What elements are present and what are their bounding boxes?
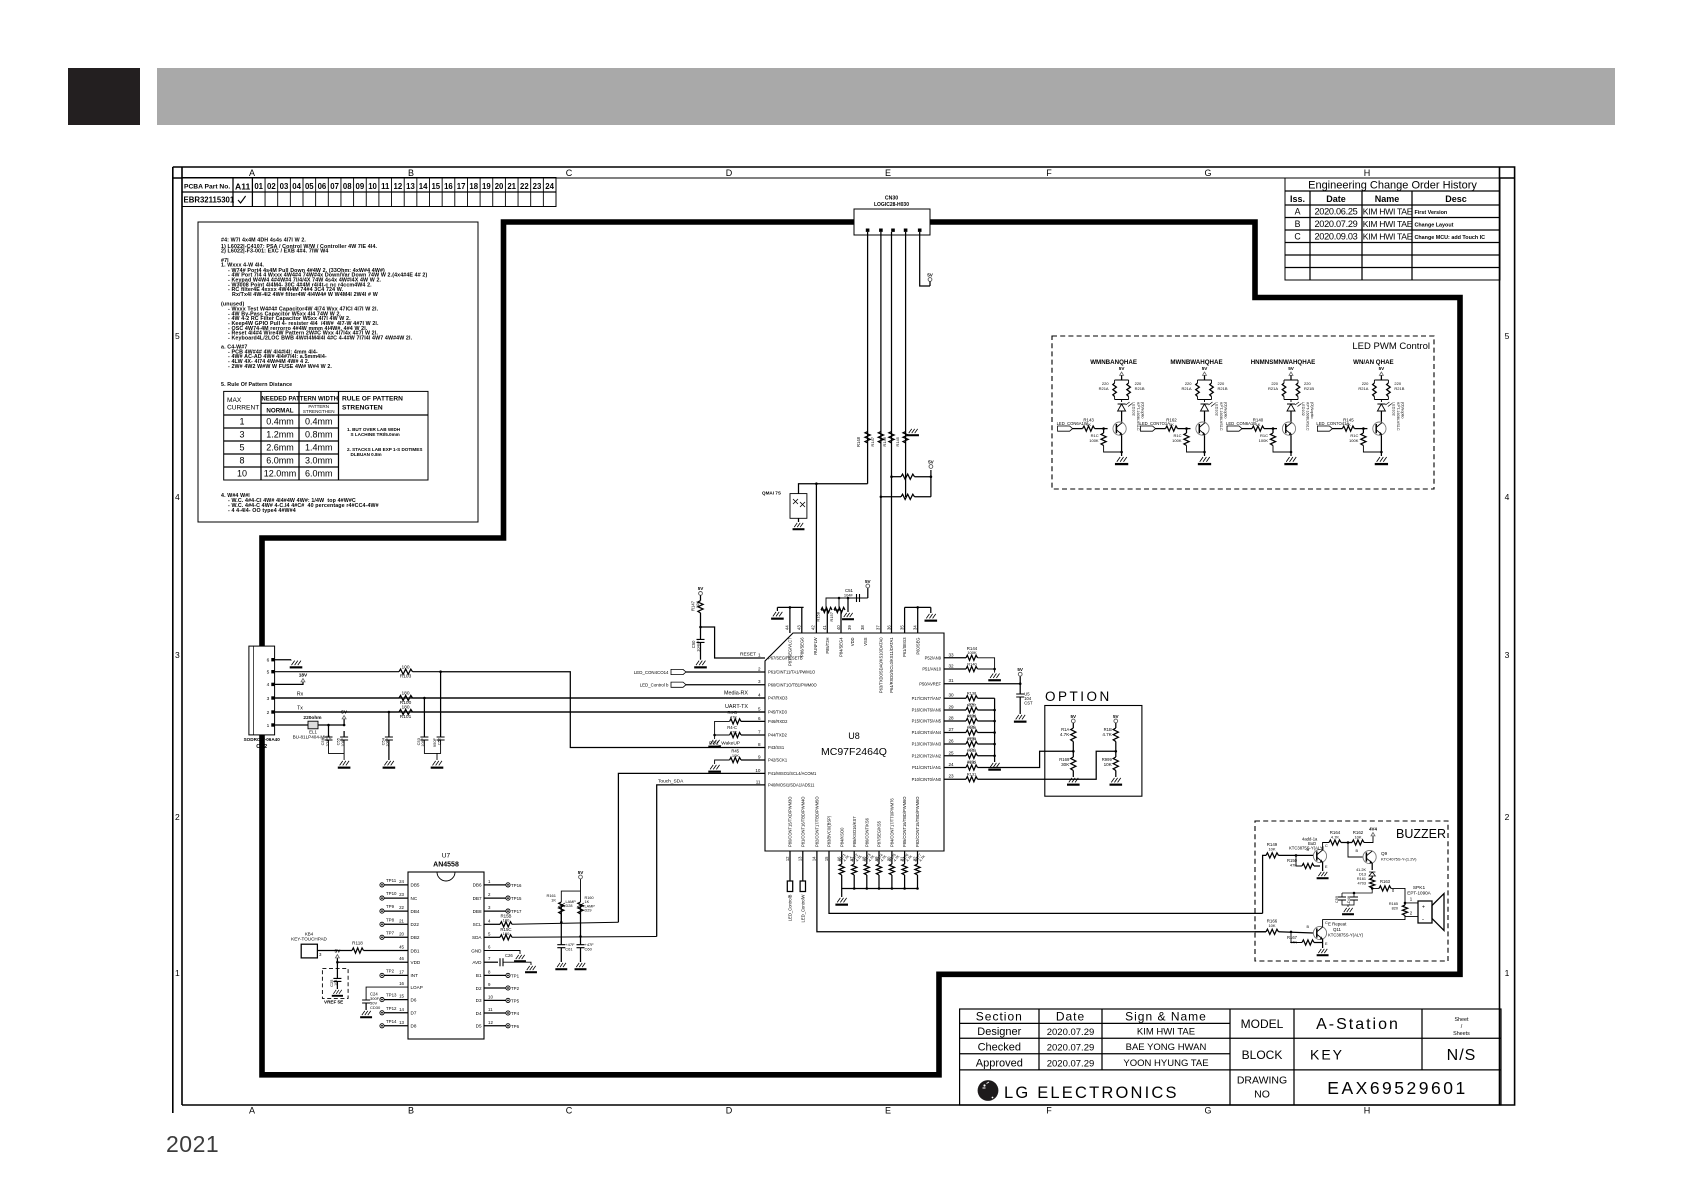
- svg-text:R21B: R21B: [1135, 386, 1145, 391]
- emitter wire to ground R140: [1290, 435, 1292, 456]
- wire SCL to MCU: [512, 922, 618, 924]
- svg-text:P84/SEG4: P84/SEG4: [839, 637, 844, 657]
- wire AVREF to bypass: [944, 683, 1020, 685]
- svg-text:4: 4: [488, 918, 491, 923]
- svg-text:3: 3: [239, 430, 244, 440]
- bias resistors pair R143: [1115, 378, 1129, 402]
- svg-text:QMAI 7S: QMAI 7S: [762, 491, 781, 496]
- wire to power 4V4: [1364, 836, 1373, 843]
- svg-text:SODROW-06A40: SODROW-06A40: [244, 737, 281, 742]
- svg-text:R147: R147: [870, 436, 875, 446]
- svg-text:P86/SEG6: P86/SEG6: [799, 637, 804, 657]
- connector CN2 SODROW-06A40: [249, 646, 275, 735]
- wire CN3 pin4 down: [905, 232, 907, 497]
- svg-text:41.2K: 41.2K: [1356, 868, 1366, 872]
- LG logo: [978, 1080, 999, 1101]
- svg-text:4: 4: [758, 693, 761, 698]
- resistor R169: [1071, 757, 1076, 771]
- wire R166 to Q11 base: [1279, 932, 1314, 933]
- svg-text:KEY: KEY: [1310, 1047, 1344, 1063]
- wire U7 LOAP to C24: [366, 987, 408, 1000]
- svg-text:4.7K: 4.7K: [1102, 732, 1112, 737]
- svg-text:MWNBWAHQHAE: MWNBWAHQHAE: [1170, 359, 1222, 366]
- svg-text:P13/CINT3/AN3: P13/CINT3/AN3: [912, 742, 942, 747]
- svg-text:09: 09: [356, 182, 365, 191]
- ground R145: [1375, 457, 1388, 465]
- svg-text:DLBUAN 0.8m: DLBUAN 0.8m: [351, 452, 382, 457]
- svg-text:5V: 5V: [698, 586, 705, 591]
- svg-text:R21A: R21A: [1358, 386, 1368, 391]
- svg-text:2: 2: [488, 892, 491, 897]
- ground C26: [525, 966, 537, 973]
- LED indicator R143: [1118, 404, 1126, 411]
- svg-text:B: B: [1355, 849, 1358, 853]
- svg-text:WN/AN QHAE: WN/AN QHAE: [1353, 359, 1394, 366]
- svg-text:10: 10: [368, 182, 377, 191]
- svg-text:P42/SCK1: P42/SCK1: [768, 758, 788, 763]
- capacitor C51: [857, 594, 860, 602]
- svg-text:CD30: CD30: [370, 1005, 381, 1010]
- svg-text:5: 5: [239, 443, 244, 453]
- capacitor C60 on SDA: [580, 937, 582, 945]
- svg-text:R157: R157: [829, 611, 834, 621]
- LED driver circuit R145: [1353, 359, 1394, 366]
- U7 AN4558 body: [408, 872, 484, 1039]
- svg-text:100K: 100K: [1349, 438, 1359, 443]
- ground below C24: [365, 1003, 367, 1010]
- svg-text:10K: 10K: [1268, 923, 1275, 928]
- svg-text:- Keyboard4L/2LOC BWB 4W#l4M4l: - Keyboard4L/2LOC BWB 4W#l4M4l4l 4#C 4-4…: [228, 335, 413, 341]
- svg-text:5V: 5V: [865, 579, 872, 584]
- capacitor C56: [328, 725, 330, 737]
- svg-text:P50/AVREF: P50/AVREF: [919, 681, 941, 686]
- svg-text:OPTION: OPTION: [1045, 689, 1112, 704]
- svg-text:BLOCK: BLOCK: [1242, 1048, 1283, 1062]
- svg-text:C59: C59: [1335, 896, 1339, 903]
- caps C59 LD48 cluster to ground: [1342, 888, 1372, 897]
- wire R164 junction to Q9 base: [1348, 843, 1363, 858]
- ground below remote box: [798, 518, 800, 522]
- ground below ladder bus: [988, 763, 1001, 771]
- ground below R45: [708, 765, 721, 773]
- svg-text:180: 180: [401, 705, 409, 711]
- svg-text:Sign & Name: Sign & Name: [1125, 1010, 1207, 1024]
- svg-text:46: 46: [399, 956, 404, 961]
- svg-text:E: E: [885, 1106, 891, 1116]
- svg-text:R118: R118: [352, 941, 363, 946]
- wire Q11 emitter ground: [1322, 939, 1324, 948]
- svg-text:KPT-1608LVS1C: KPT-1608LVS1C: [1219, 402, 1223, 431]
- svg-text:Section: Section: [976, 1010, 1023, 1024]
- svg-text:STRENGTEN: STRENGTEN: [342, 405, 383, 412]
- svg-text:0.4mm: 0.4mm: [305, 417, 333, 427]
- svg-text:1.2mm: 1.2mm: [266, 430, 294, 440]
- svg-text:4703: 4703: [1358, 882, 1366, 886]
- svg-text:MC97F2464Q: MC97F2464Q: [821, 746, 887, 758]
- svg-text:24: 24: [545, 182, 554, 191]
- svg-text:Desc: Desc: [1445, 194, 1467, 204]
- wire divider mid: [1115, 742, 1117, 758]
- svg-text:21: 21: [507, 182, 516, 191]
- svg-text:(O)Noptio: (O)Noptio: [1224, 402, 1228, 418]
- svg-text:3: 3: [488, 905, 491, 910]
- svg-text:4: 4: [267, 682, 270, 688]
- svg-text:SCL: SCL: [473, 922, 482, 927]
- resistor R132 on U8 pin24 AN1: [944, 767, 966, 769]
- svg-text:P40/MOSI1/SDA1/AD511: P40/MOSI1/SDA1/AD511: [768, 783, 815, 788]
- bias resistors pair R140: [1284, 378, 1298, 402]
- svg-text:Media-RX: Media-RX: [724, 691, 748, 697]
- power 5V R140: [1289, 372, 1293, 375]
- wire UART-TX from CN2 to U8 pin5: [275, 711, 765, 713]
- transistor Q R140: [1282, 422, 1295, 435]
- svg-text:8: 8: [239, 456, 244, 466]
- svg-text:HNMNSMNWAHQHAE: HNMNSMNWAHQHAE: [1251, 359, 1316, 366]
- I2C pullup R160 with diode D29: [580, 905, 582, 937]
- base resistor R162: [1156, 428, 1166, 430]
- svg-text:MODEL: MODEL: [1241, 1017, 1284, 1031]
- ground below resistor array: [841, 889, 843, 898]
- resistor R15C on U7 SDA: [484, 936, 500, 938]
- svg-text:5V: 5V: [1379, 366, 1386, 371]
- ground caps cluster: [1342, 908, 1354, 915]
- svg-text:1: 1: [488, 879, 491, 884]
- U7 left pins with test pads: [380, 878, 423, 1029]
- resistor R121 on U8 pin7: [741, 734, 765, 736]
- svg-text:31: 31: [949, 678, 955, 683]
- svg-text:23: 23: [399, 892, 404, 897]
- power 5V R145: [1379, 372, 1383, 375]
- resistor array R171-R177 below U8: [838, 851, 927, 889]
- wire CN2 pin2 Tx line: [275, 711, 399, 713]
- svg-text:01: 01: [254, 182, 263, 191]
- svg-text:1K: 1K: [551, 898, 556, 903]
- svg-text:LED_CON6A1B: LED_CON6A1B: [1226, 421, 1256, 426]
- svg-text:Engineering Change Order Histo: Engineering Change Order History: [1308, 180, 1477, 192]
- svg-text:C26: C26: [505, 953, 513, 958]
- wire caps to ground: [329, 740, 345, 760]
- svg-text:R131: R131: [967, 772, 977, 777]
- resistor R103 100: [399, 669, 413, 674]
- svg-text:3: 3: [758, 679, 761, 684]
- svg-text:8: 8: [758, 742, 761, 747]
- svg-text:NORMAL: NORMAL: [266, 407, 293, 414]
- svg-text:1K: 1K: [585, 900, 590, 904]
- svg-text:42: 42: [810, 625, 815, 630]
- svg-text:P82/CONT17/TBD/PWM5O: P82/CONT17/TBD/PWM5O: [815, 796, 820, 847]
- series resistors R145-R148 on CN3 lines: [865, 432, 870, 444]
- svg-text:KPT-1608LVS1C: KPT-1608LVS1C: [1306, 402, 1310, 431]
- svg-text:F: F: [1046, 1106, 1052, 1116]
- svg-text:47K: 47K: [1290, 940, 1297, 945]
- svg-text:5V: 5V: [334, 949, 341, 955]
- svg-text:+: +: [1422, 905, 1425, 911]
- power 5V divider at x=1115: [1114, 719, 1118, 723]
- LED driver circuit R143: [1090, 359, 1137, 366]
- resistor R45 10K on U8 pin9: [741, 759, 765, 761]
- svg-text:D: D: [726, 1106, 733, 1116]
- svg-text:100: 100: [401, 664, 409, 670]
- svg-text:D13: D13: [1359, 873, 1366, 877]
- net tag LED_CON4CO14 to U8 pin2: [671, 669, 686, 674]
- svg-text:2020.07.29: 2020.07.29: [1315, 219, 1358, 229]
- U8 left pin stubs and labels: [755, 653, 817, 788]
- svg-text:5: 5: [1505, 331, 1510, 341]
- svg-text:23: 23: [533, 182, 542, 191]
- svg-text:R21B: R21B: [1394, 386, 1404, 391]
- svg-text:Change Layout: Change Layout: [1415, 223, 1454, 229]
- U8 top pin stubs and labels: [785, 625, 921, 693]
- svg-text:U7: U7: [442, 853, 451, 860]
- svg-text:100K: 100K: [967, 650, 977, 655]
- svg-text:P83/BVC0/(BSP): P83/BVC0/(BSP): [827, 815, 832, 847]
- resistor R147 10K: [698, 601, 703, 613]
- svg-text:WMNBANQHAE: WMNBANQHAE: [1090, 359, 1137, 366]
- svg-text:5: 5: [267, 670, 270, 676]
- svg-text:1K: 1K: [1086, 422, 1091, 427]
- svg-text:1: 1: [1505, 968, 1510, 978]
- wire LED to transistor R162: [1204, 411, 1206, 422]
- svg-text:R148: R148: [856, 436, 861, 447]
- ground R140: [1284, 457, 1297, 465]
- wire DD1_WakeUP from CN2 18V line to U8 pin8: [441, 672, 765, 748]
- base resistor R143: [1073, 428, 1083, 430]
- svg-text:R21A: R21A: [1181, 386, 1191, 391]
- svg-text:4V4: 4V4: [1369, 827, 1377, 832]
- svg-text:TP14: TP14: [386, 1019, 397, 1024]
- ground Q11: [1317, 949, 1329, 956]
- wire R149 to T1 base: [1279, 854, 1314, 856]
- svg-text:30: 30: [949, 693, 955, 698]
- svg-text:3: 3: [175, 650, 180, 660]
- svg-text:LED_ControlW: LED_ControlW: [801, 894, 806, 922]
- svg-text:2: 2: [267, 710, 270, 716]
- wire T1 collector: [1323, 843, 1329, 851]
- ground below C60: [580, 948, 582, 962]
- I2C pullup resistor to 5V (upper): [892, 476, 902, 478]
- svg-text:R158: R158: [816, 611, 821, 621]
- svg-text:KIM HWI TAE: KIM HWI TAE: [1363, 219, 1413, 229]
- svg-text:KTC3875S-Y(ALY): KTC3875S-Y(ALY): [1289, 846, 1325, 851]
- power 5V AVREF: [1019, 676, 1021, 684]
- svg-text:DRAWING: DRAWING: [1237, 1075, 1287, 1087]
- wire R163 to speaker pin1: [1391, 888, 1418, 903]
- thick schematic boundary outline: [262, 222, 1460, 1075]
- remote sensor box: [790, 494, 807, 519]
- wire divider mid: [1072, 742, 1074, 758]
- svg-text:P61/CINT11/TA1/PWM1O: P61/CINT11/TA1/PWM1O: [768, 670, 815, 675]
- svg-text:LED102: LED102: [1391, 402, 1395, 416]
- svg-text:P10/CINT0/AN0: P10/CINT0/AN0: [912, 777, 942, 782]
- transistor T1 KTC3875S: [1313, 849, 1326, 862]
- svg-text:Designer: Designer: [977, 1026, 1021, 1038]
- year caption: [166, 1131, 219, 1158]
- svg-text:DB1: DB1: [411, 948, 420, 953]
- svg-text:P44/TXD2: P44/TXD2: [768, 733, 788, 738]
- svg-text:12: 12: [785, 856, 790, 861]
- svg-text:220ohm: 220ohm: [303, 715, 321, 721]
- svg-text:F: F: [1046, 168, 1052, 178]
- svg-text:YOON HYUNG TAE: YOON HYUNG TAE: [1123, 1058, 1208, 1069]
- svg-text:TP12: TP12: [386, 1006, 397, 1011]
- wire U8 pin15 to buzzer (upper): [829, 851, 1263, 913]
- svg-text:A: A: [1295, 207, 1301, 217]
- sheet outer border: [173, 167, 1515, 1113]
- resistor R165 820: [1404, 903, 1406, 905]
- wire divider to ground: [1115, 771, 1117, 778]
- wire C52/C53 to ground: [424, 740, 440, 760]
- base resistor R140: [1242, 428, 1252, 430]
- svg-text:C56: C56: [320, 737, 325, 745]
- notes box: [198, 222, 478, 522]
- svg-text:100K: 100K: [1259, 438, 1269, 443]
- svg-text:KEY-TOUCHPAD: KEY-TOUCHPAD: [291, 936, 327, 941]
- svg-text:32: 32: [949, 664, 955, 669]
- svg-text:9: 9: [758, 755, 761, 760]
- svg-text:R165: R165: [1389, 902, 1398, 906]
- svg-text:100: 100: [503, 931, 510, 936]
- svg-text:5V: 5V: [341, 710, 348, 716]
- svg-text:8: 8: [488, 969, 491, 974]
- resistor R164 4.7K: [1329, 840, 1341, 845]
- wire U8 pin11 to touch SDA: [657, 785, 765, 937]
- svg-text:P84/KSO0: P84/KSO0: [839, 827, 844, 847]
- svg-text:27: 27: [949, 727, 955, 732]
- svg-text:INT: INT: [411, 973, 419, 978]
- wire CN2 pin6 to ground: [275, 659, 291, 661]
- svg-text:C: C: [566, 168, 573, 178]
- svg-text:TP10: TP10: [386, 891, 397, 896]
- wire R45 to ground: [715, 760, 730, 764]
- pulldown resistor R150: [1296, 855, 1302, 866]
- svg-text:17: 17: [399, 969, 404, 974]
- wire T1 emitter to ground: [1322, 862, 1324, 871]
- svg-text:5: 5: [488, 931, 491, 936]
- svg-text:P85/CONT16/TBD/PWM6O: P85/CONT16/TBD/PWM6O: [902, 796, 907, 847]
- svg-text:B1: B1: [476, 973, 482, 978]
- svg-text:(O)Noptio: (O)Noptio: [1141, 402, 1145, 418]
- svg-text:47K: 47K: [730, 729, 737, 734]
- resistor R131 on U8 pin23 AN0: [944, 778, 966, 780]
- svg-text:12.0mm: 12.0mm: [264, 469, 297, 479]
- svg-text:24: 24: [949, 762, 955, 767]
- svg-text:RESET: RESET: [740, 652, 756, 658]
- svg-text:LED_CON4CO14: LED_CON4CO14: [634, 670, 669, 675]
- transistor Q R145: [1373, 422, 1386, 435]
- svg-text:41: 41: [822, 625, 827, 630]
- check mark under A11: [238, 196, 246, 203]
- svg-text:16: 16: [399, 981, 404, 986]
- resistor R143A on U8 pin32: [944, 668, 966, 670]
- power 5V divider at x=1073: [1071, 719, 1075, 723]
- svg-text:D8: D8: [411, 1024, 417, 1029]
- svg-text:15: 15: [824, 856, 829, 861]
- svg-text:MAX: MAX: [227, 397, 242, 404]
- svg-text:U8: U8: [848, 731, 860, 741]
- svg-text:1: 1: [175, 968, 180, 978]
- title block table: [960, 1009, 1501, 1105]
- svg-text:950F: 950F: [432, 737, 437, 747]
- svg-text:26: 26: [949, 739, 955, 744]
- svg-text:BAE YONG HWAN: BAE YONG HWAN: [1126, 1042, 1207, 1053]
- svg-text:P85/KSO16/KS7: P85/KSO16/KS7: [852, 816, 857, 847]
- svg-text:4.7K: 4.7K: [1331, 835, 1340, 840]
- power 5V U7 pullups: [579, 875, 583, 879]
- test pad LED_ControlW on U8 pin13: [802, 851, 804, 881]
- wire R164 to R160b: [1341, 842, 1352, 844]
- svg-text:LED_Control b: LED_Control b: [640, 683, 669, 688]
- wire Q9 emitter to diode cluster: [1371, 863, 1373, 870]
- svg-text:B: B: [408, 168, 414, 178]
- svg-text:TP15: TP15: [511, 896, 522, 901]
- svg-text:08: 08: [343, 182, 352, 191]
- svg-text:KPT-1608LVS1C: KPT-1608LVS1C: [1136, 402, 1140, 431]
- svg-text:10: 10: [488, 994, 493, 999]
- ground below C61: [560, 948, 562, 962]
- ground below R144 bus: [988, 674, 1001, 682]
- svg-text:R21B: R21B: [1304, 386, 1314, 391]
- svg-text:R133: R133: [967, 748, 977, 753]
- svg-text:104nF: 104nF: [695, 640, 700, 652]
- svg-text:104F: 104F: [844, 593, 854, 598]
- svg-text:10K: 10K: [1268, 847, 1275, 852]
- svg-text:R21B: R21B: [1218, 386, 1228, 391]
- svg-text:5V: 5V: [1288, 366, 1295, 371]
- svg-text:Checked: Checked: [978, 1042, 1021, 1054]
- ground on bus: [847, 598, 849, 612]
- svg-text:4: 4: [175, 492, 180, 502]
- LED driver circuit R140: [1251, 359, 1316, 366]
- svg-text:P11/CINT1/AN1: P11/CINT1/AN1: [912, 765, 942, 770]
- svg-text:34: 34: [913, 625, 918, 630]
- svg-text:H: H: [1364, 168, 1371, 178]
- svg-text:Sheets: Sheets: [1453, 1031, 1470, 1037]
- U8 right pin stubs and labels: [912, 652, 954, 782]
- wire CN3 pin1 down: [867, 232, 869, 484]
- svg-text:P15/CINT5/AN5: P15/CINT5/AN5: [912, 719, 942, 724]
- svg-text:D7: D7: [411, 1011, 417, 1016]
- power 5V on EL1 output: [343, 719, 345, 725]
- ground divider: [1110, 778, 1123, 786]
- svg-text:6: 6: [488, 945, 491, 950]
- ground below C50: [700, 642, 702, 659]
- resistor R120 on U8 pin6: [741, 720, 765, 722]
- svg-text:D29: D29: [585, 909, 592, 913]
- wire AN0 into OPTION divider2: [978, 751, 1116, 779]
- svg-text:15: 15: [399, 994, 404, 999]
- wire R118 to U7 DB1: [364, 950, 409, 952]
- svg-text:0.8mm: 0.8mm: [305, 430, 333, 440]
- svg-text:GND: GND: [471, 948, 482, 953]
- svg-text:R101: R101: [400, 714, 412, 720]
- svg-text:29: 29: [949, 705, 955, 710]
- svg-text:VDD: VDD: [411, 960, 421, 965]
- svg-text:39: 39: [847, 625, 852, 630]
- box KEY-TOUCHPAD: [301, 944, 317, 958]
- ground pins6-7 bus: [708, 740, 721, 748]
- svg-text:44: 44: [785, 625, 790, 630]
- svg-text:KIM HWI TAE: KIM HWI TAE: [1363, 232, 1413, 242]
- svg-text:180: 180: [401, 691, 409, 697]
- svg-text:DB4: DB4: [411, 909, 420, 914]
- wire resistor bus to 5V: [826, 598, 868, 610]
- svg-text:Date: Date: [1326, 194, 1346, 204]
- svg-text:TP17: TP17: [511, 909, 522, 914]
- svg-text:C55: C55: [336, 737, 341, 745]
- svg-text:RULE OF PATTERN: RULE OF PATTERN: [342, 396, 403, 403]
- transistor Q R143: [1113, 422, 1126, 435]
- wire U8 pin10 to touch SCL: [618, 773, 765, 922]
